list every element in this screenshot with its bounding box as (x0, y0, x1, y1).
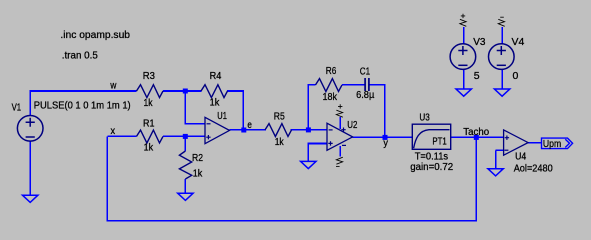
svg-text:x: x (111, 125, 116, 137)
svg-text:Upm: Upm (543, 138, 562, 150)
svg-text:R2: R2 (192, 152, 203, 164)
svg-text:C1: C1 (360, 65, 370, 77)
svg-text:V1: V1 (12, 101, 22, 113)
svg-text:PULSE(0 1 0 1m 1m 1): PULSE(0 1 0 1m 1m 1) (34, 99, 131, 111)
svg-text:w: w (110, 79, 117, 91)
svg-text:5: 5 (474, 70, 480, 82)
svg-text:1k: 1k (193, 167, 203, 179)
svg-text:1k: 1k (210, 97, 220, 109)
svg-text:R6: R6 (326, 65, 337, 77)
svg-text:Aol=2480: Aol=2480 (514, 162, 553, 174)
svg-text:6.8µ: 6.8µ (356, 89, 374, 101)
svg-text:.inc opamp.sub: .inc opamp.sub (60, 29, 130, 41)
svg-text:U2: U2 (347, 119, 357, 131)
svg-text:R1: R1 (143, 118, 155, 130)
svg-text:0: 0 (513, 70, 519, 82)
svg-text:U1: U1 (217, 110, 227, 122)
svg-text:1k: 1k (275, 136, 285, 148)
svg-text:1k: 1k (144, 142, 154, 154)
svg-text:Tacho: Tacho (463, 126, 489, 138)
svg-text:y: y (383, 137, 388, 149)
svg-text:e: e (247, 119, 252, 131)
svg-text:R5: R5 (274, 110, 285, 122)
svg-text:.tran 0.5: .tran 0.5 (62, 49, 98, 61)
svg-text:U4: U4 (515, 151, 526, 163)
svg-text:PT1: PT1 (432, 136, 447, 148)
svg-text:gain=0.72: gain=0.72 (410, 161, 453, 173)
svg-text:18k: 18k (323, 91, 338, 103)
svg-text:R4: R4 (210, 70, 222, 82)
svg-text:U3: U3 (419, 112, 430, 124)
svg-text:V3: V3 (473, 36, 485, 48)
svg-text:V4: V4 (512, 36, 525, 48)
svg-text:R3: R3 (143, 70, 155, 82)
svg-text:1k: 1k (144, 97, 154, 109)
